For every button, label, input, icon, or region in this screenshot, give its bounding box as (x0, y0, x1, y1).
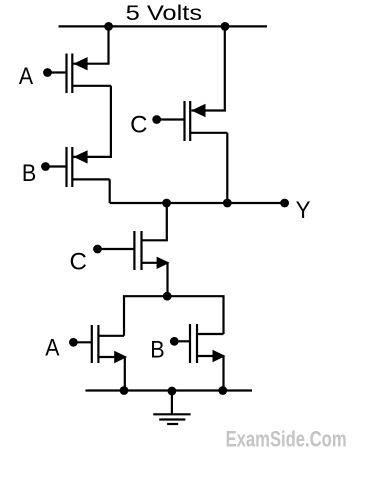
wire: Q6 source down to ground rail (222, 356, 224, 391)
node: output terminal Y (280, 199, 289, 208)
node: VDD junction to Q1 (104, 22, 113, 31)
svg-text:C: C (70, 248, 87, 275)
node: ground rail junction to Q6 source (218, 386, 227, 395)
svg-text:5 Volts: 5 Volts (126, 2, 203, 25)
transistor Q3 (PMOS, gate C, right) (152, 101, 227, 141)
wire: Q2 drain down to output node (109, 179, 111, 203)
svg-text:C: C (130, 112, 147, 139)
wire: Q5 source down to ground rail (124, 357, 126, 391)
svg-text:B: B (22, 160, 36, 187)
svg-text:B: B (150, 336, 164, 363)
ground (153, 391, 190, 425)
wire: Q3 drain down to output node (226, 133, 228, 203)
node: ground rail junction to ground symbol (168, 387, 177, 396)
power rail 5 Volts (VDD) (59, 25, 268, 27)
transistor Q6 (NMOS, gate B, bottom right) (170, 324, 226, 363)
svg-text:ExamSide.Com: ExamSide.Com (226, 426, 347, 451)
svg-text:A: A (19, 63, 33, 90)
node: VDD junction to Q3 (221, 22, 230, 31)
svg-text:A: A (45, 334, 59, 361)
wire: parallel rail joining Q5 and Q6 drains (124, 296, 224, 336)
node: output junction to Q3 drain (223, 199, 232, 208)
wire: Q4 source down to parallel rail (166, 263, 168, 296)
transistor Q2 (PMOS, gate B, left) (41, 147, 110, 187)
wire: output node down to Q4 drain lead (142, 203, 167, 240)
transistor Q1 (PMOS, gate A, top left) (43, 54, 111, 94)
wire: Q1 drain down to Q2 source lead (73, 86, 111, 157)
wire: output node Y horizontal (110, 202, 285, 204)
transistor Q5 (NMOS, gate A, bottom left) (69, 325, 127, 363)
svg-text:Y: Y (296, 197, 311, 224)
node: output junction to Q4 drain (162, 199, 171, 208)
node: parallel rail junction to Q4 source (163, 292, 172, 301)
wire: VDD down to Q1 source lead (73, 26, 109, 63)
transistor Q4 (NMOS, gate C, middle) (93, 231, 170, 270)
ground rail (86, 389, 253, 391)
wire: Q3 source lead up to VDD (192, 26, 225, 110)
node: ground rail junction to Q5 source (120, 386, 129, 395)
